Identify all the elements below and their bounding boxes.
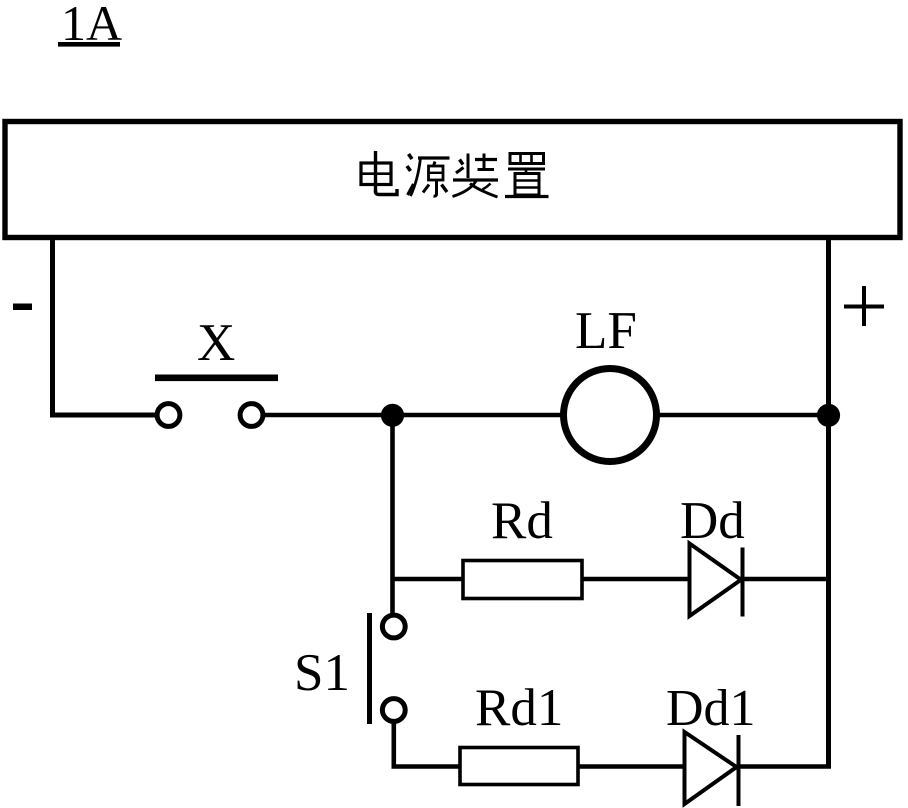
figure label 1A bbox=[58, 0, 122, 51]
wire left leg from box to switch X bbox=[53, 240, 157, 415]
svg-text:Rd: Rd bbox=[491, 492, 553, 550]
node B bbox=[817, 404, 840, 427]
switch S1 bar bbox=[367, 613, 372, 724]
switch X bar bbox=[155, 375, 278, 382]
wire node A down to S1 bbox=[390, 415, 395, 614]
switch S1 top contact bbox=[382, 615, 405, 638]
wire node A to LF bbox=[392, 413, 563, 418]
glyph 装 bbox=[453, 154, 499, 198]
node A bbox=[381, 404, 404, 427]
glyph 电 bbox=[361, 151, 397, 195]
minus terminal label bbox=[13, 304, 32, 311]
svg-text:S1: S1 bbox=[294, 644, 350, 702]
diode Dd bbox=[690, 544, 743, 617]
resistor Rd bbox=[463, 561, 582, 599]
svg-text:LF: LF bbox=[575, 302, 637, 360]
wire from switch X to node A bbox=[265, 413, 392, 418]
switch S1 bottom contact bbox=[382, 699, 405, 722]
glyph 置 bbox=[505, 154, 549, 197]
fuse LF bbox=[564, 369, 657, 462]
svg-text:Dd1: Dd1 bbox=[666, 680, 756, 737]
wire Dd1 to right leg bbox=[738, 764, 831, 769]
wire Rd to Dd bbox=[582, 577, 688, 582]
plus terminal label bbox=[844, 286, 884, 326]
wire right leg from box down to Dd1 row bbox=[826, 240, 831, 767]
wire S1 down to Rd1 row bbox=[394, 721, 460, 767]
resistor Rd1 bbox=[460, 748, 578, 785]
wire branch to Rd bbox=[393, 577, 464, 582]
power supply box bbox=[5, 122, 900, 238]
wire Rd1 to Dd1 bbox=[578, 764, 683, 769]
svg-text:X: X bbox=[197, 314, 235, 372]
switch X left contact bbox=[157, 404, 180, 427]
svg-text:Rd1: Rd1 bbox=[475, 679, 563, 737]
glyph 源 bbox=[407, 154, 450, 196]
wire LF to node B bbox=[657, 413, 829, 418]
diode Dd1 bbox=[685, 732, 739, 806]
wire Dd to right leg bbox=[742, 577, 829, 582]
switch X right contact bbox=[240, 404, 263, 427]
